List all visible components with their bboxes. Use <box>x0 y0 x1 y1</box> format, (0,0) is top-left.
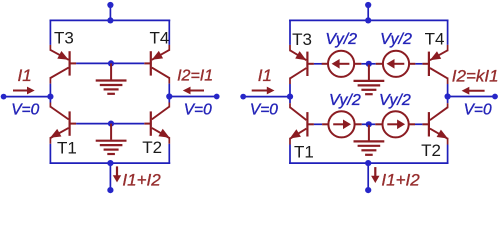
wire bottom stub left circuit <box>109 163 111 190</box>
svg-text:T4: T4 <box>425 30 445 49</box>
wire output right left circuit <box>169 96 216 98</box>
svg-text:Vy/2: Vy/2 <box>379 92 411 109</box>
wire lower base left circuit <box>76 123 144 125</box>
wire left emitter column left circuit <box>49 20 51 45</box>
node bottom rail junction left circuit <box>107 160 113 166</box>
ground at upper base right circuit <box>354 64 385 94</box>
svg-text:T2: T2 <box>421 141 441 160</box>
wire right node column left circuit <box>168 77 170 84</box>
wire left bottom column right circuit <box>289 138 291 145</box>
current source Vy/2 upper-right <box>383 51 409 77</box>
node input junction left right circuit <box>287 94 293 100</box>
svg-text:T2: T2 <box>142 138 162 157</box>
wire upper base left circuit <box>76 62 144 64</box>
wire top supply stub right circuit <box>367 5 369 20</box>
wire output right right circuit <box>448 96 495 98</box>
svg-text:V=0: V=0 <box>11 102 39 119</box>
arrow I1 right circuit <box>252 90 268 92</box>
node input terminal left right circuit <box>240 94 246 100</box>
wire left node column right circuit <box>289 78 291 85</box>
ground at lower base right circuit <box>354 124 385 155</box>
ground at upper base left circuit <box>96 63 127 93</box>
transistor T2 right <box>422 107 448 138</box>
wire left node column left circuit <box>49 77 51 84</box>
arrow I2 left-pointing <box>190 90 205 92</box>
ground at lower base left circuit <box>96 124 127 154</box>
svg-text:Vy/2: Vy/2 <box>380 31 412 48</box>
svg-text:T1: T1 <box>57 138 77 157</box>
node top terminal right circuit <box>365 2 371 8</box>
svg-text:T3: T3 <box>54 29 74 48</box>
current source Vy/2 upper-left <box>328 51 354 77</box>
node upper base junction right circuit <box>366 61 372 67</box>
svg-text:I1: I1 <box>258 66 272 85</box>
wire lower base segments right circuit <box>314 123 322 125</box>
wire right bottom column right circuit <box>447 138 449 145</box>
node input junction left left circuit <box>47 94 53 100</box>
arrow output current I1+I2 left circuit <box>116 166 118 175</box>
node upper base junction left circuit <box>108 60 114 66</box>
wire right bottom column left circuit <box>168 137 170 144</box>
svg-text:T3: T3 <box>292 30 312 49</box>
wire left bottom column left circuit <box>49 137 51 144</box>
wire input left right circuit <box>243 96 290 98</box>
svg-text:Vy/2: Vy/2 <box>325 31 357 48</box>
wire left emitter column right circuit <box>289 20 291 45</box>
wire upper base segments right circuit <box>314 63 322 65</box>
wire input left left circuit <box>4 96 51 98</box>
wire top supply stub left circuit <box>109 5 111 20</box>
node lower base junction right circuit <box>366 121 372 127</box>
node output terminal right left circuit <box>214 94 220 100</box>
svg-text:T1: T1 <box>294 142 314 161</box>
wire bottom rail right circuit <box>289 162 448 164</box>
svg-text:I2=I1: I2=I1 <box>177 67 213 84</box>
node bottom terminal right circuit <box>365 187 371 193</box>
svg-text:V=0: V=0 <box>184 102 212 119</box>
arrow I2 right circuit <box>469 90 485 92</box>
transistor T4 right <box>422 50 447 78</box>
wire bottom rail left circuit <box>50 162 171 164</box>
transistor T4 <box>144 50 169 78</box>
node lower base junction left circuit <box>108 121 114 127</box>
svg-text:I1+I2: I1+I2 <box>381 170 420 189</box>
node top rail junction left circuit <box>107 17 113 23</box>
wire right emitter column left circuit <box>168 20 170 45</box>
transistor T1 <box>50 107 76 138</box>
node output terminal right right circuit <box>492 94 498 100</box>
svg-text:I1+I2: I1+I2 <box>122 170 161 189</box>
node top rail junction right circuit <box>365 17 371 23</box>
wire right node column right circuit <box>447 78 449 85</box>
transistor T1 right <box>290 107 314 138</box>
node top terminal left circuit <box>107 2 113 8</box>
transistor T2 <box>144 107 169 138</box>
svg-text:T4: T4 <box>150 29 170 48</box>
wire bottom stub right circuit <box>367 163 369 190</box>
wire right emitter column right circuit <box>447 20 449 45</box>
transistor T3 <box>50 50 76 78</box>
svg-text:I1: I1 <box>18 66 32 85</box>
wire top rail left circuit <box>50 19 171 21</box>
node output junction right right circuit <box>445 93 451 99</box>
svg-text:V=0: V=0 <box>250 102 278 119</box>
arrow I1 left <box>13 90 29 92</box>
arrow output current I1+I2 right circuit <box>374 167 376 176</box>
svg-text:I2=kI1: I2=kI1 <box>452 67 499 86</box>
svg-text:V=0: V=0 <box>464 102 492 119</box>
svg-text:Vy/2: Vy/2 <box>329 92 361 109</box>
node output junction right left circuit <box>166 93 172 99</box>
node bottom terminal left circuit <box>107 187 113 193</box>
current source Vy/2 lower-left <box>328 111 354 137</box>
node input terminal left left circuit <box>1 94 7 100</box>
wire top rail right circuit <box>289 19 448 21</box>
transistor T3 right <box>290 50 314 78</box>
current source Vy/2 lower-right <box>383 111 409 137</box>
node bottom rail junction right circuit <box>365 160 371 166</box>
